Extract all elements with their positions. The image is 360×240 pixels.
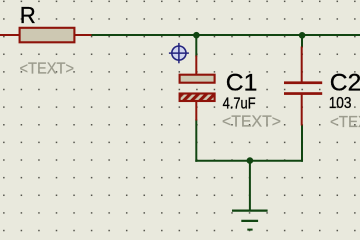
svg-text:R: R — [20, 2, 36, 28]
svg-text:<TEXT>: <TEXT> — [222, 114, 281, 131]
svg-text:<TEXT>: <TEXT> — [20, 61, 75, 78]
svg-text:103: 103 — [329, 95, 352, 112]
svg-text:4.7uF: 4.7uF — [223, 96, 256, 113]
svg-text:C1: C1 — [226, 70, 258, 97]
svg-text:C2: C2 — [330, 69, 360, 96]
svg-text:<TEXT>: <TEXT> — [330, 114, 360, 131]
